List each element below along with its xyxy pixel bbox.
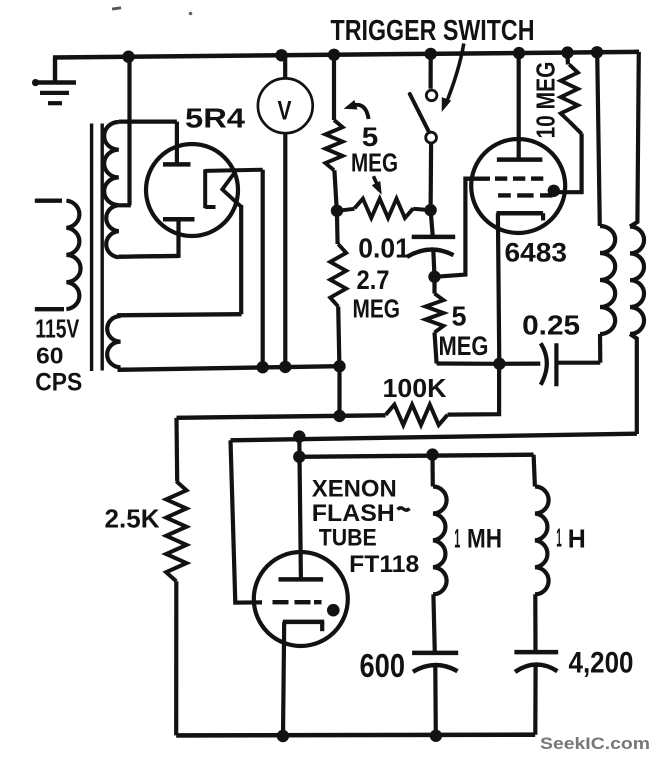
pot adjust curved arrow	[349, 105, 369, 119]
6483 grid (dashed)	[465, 177, 490, 181]
6483 gas dot	[548, 185, 560, 197]
inductor 1H	[534, 455, 535, 487]
potentiometer 5 MEG vertical element	[332, 55, 336, 120]
wire node to cap 0.01	[431, 210, 433, 237]
wire switch to resistor node	[429, 144, 434, 211]
5R4 filament	[203, 169, 207, 208]
wire to 6483 grid	[435, 179, 489, 277]
xenon cathode	[283, 620, 324, 625]
svg-text:2.5K: 2.5K	[105, 504, 160, 534]
resistor 10 MEG	[565, 53, 570, 65]
node: bus junction dots	[122, 51, 134, 63]
svg-text:FT118: FT118	[349, 551, 419, 578]
ground	[53, 58, 57, 83]
node junction	[493, 358, 505, 370]
node junction	[424, 204, 436, 216]
svg-text:MEG: MEG	[439, 331, 489, 361]
xenon anode bar	[279, 577, 324, 582]
wire filament bus	[118, 366, 340, 370]
speck	[189, 12, 193, 16]
node: center tap	[119, 203, 131, 207]
xenon gas dot	[327, 604, 340, 617]
svg-text:2.7: 2.7	[357, 265, 390, 295]
svg-text:6483: 6483	[505, 238, 568, 268]
transformer T1 core	[90, 124, 93, 372]
tube xenon flashtube FT118 envelope	[254, 552, 348, 646]
resistor 100K	[386, 405, 448, 425]
svg-text:1: 1	[556, 523, 562, 553]
wire top supply bus	[53, 52, 639, 58]
node junction below 0.01	[428, 271, 440, 283]
svg-text:600: 600	[360, 647, 406, 684]
node junction	[331, 205, 343, 217]
wire anode bus	[299, 455, 533, 457]
5R4 top plate	[163, 162, 191, 167]
wire xenon cathode lead	[283, 622, 284, 736]
wire xenon anode lead	[299, 437, 301, 580]
svg-text:MH: MH	[467, 524, 502, 554]
transformer T1 secondary winding (upper half)	[119, 119, 177, 123]
trigger switch wire from bus	[429, 54, 433, 89]
svg-text:TRIGGER SWITCH: TRIGGER SWITCH	[331, 15, 535, 47]
wire bottom bus	[176, 732, 535, 737]
resistor 2.7 MEG	[335, 211, 340, 244]
wire 5R4 filament right lead	[261, 170, 265, 368]
voltmeter V wire bottom	[283, 133, 287, 367]
wire gas dot to 10 MEG	[557, 134, 582, 193]
wire mid bus left	[337, 366, 341, 416]
svg-text:5: 5	[452, 301, 467, 332]
svg-text:115V: 115V	[35, 314, 79, 344]
svg-text:MEG: MEG	[351, 148, 398, 178]
wire 5R4 filament to winding	[239, 205, 243, 314]
resistor 2.5K	[174, 418, 179, 481]
capacitor 600	[412, 651, 458, 656]
transformer T1 secondary winding (lower half)	[106, 205, 119, 257]
svg-text:V: V	[278, 96, 292, 126]
trigger switch bottom contact	[426, 132, 437, 143]
svg-text:MEG: MEG	[353, 294, 401, 324]
resistor 5 MEG (second)	[432, 277, 436, 294]
wire trigger bus	[231, 434, 637, 441]
svg-text:100K: 100K	[383, 373, 447, 403]
wiper arrow	[373, 176, 378, 187]
5R4 bottom plate	[163, 217, 195, 222]
trigger switch top contact	[426, 90, 437, 101]
resistor 5 MEG horizontal	[337, 209, 355, 211]
svg-text:H: H	[568, 524, 586, 554]
capacitor 0.25	[499, 362, 540, 366]
svg-text:5R4: 5R4	[185, 103, 246, 134]
svg-text:10 MEG: 10 MEG	[531, 62, 561, 139]
svg-text:FLASH: FLASH	[312, 500, 395, 527]
svg-text:SeekIC.com: SeekIC.com	[540, 735, 650, 753]
inductor 1MH	[430, 455, 434, 487]
voltmeter V wire top	[283, 55, 287, 78]
svg-text:XENON: XENON	[312, 475, 397, 502]
6483 trigger grid (dashed)	[498, 193, 511, 197]
wire to cathode node	[437, 361, 500, 365]
capacitor 4,200	[514, 650, 558, 655]
svg-text:0.25: 0.25	[522, 310, 580, 341]
6483 cathode	[497, 211, 544, 216]
capacitor 0.01	[412, 235, 456, 240]
trigger switch blade	[410, 94, 429, 132]
wire 6483 cathode lead	[498, 213, 499, 364]
speck	[112, 6, 121, 10]
tube 6483 envelope	[471, 139, 565, 233]
svg-text:60: 60	[36, 343, 64, 369]
xenon trigger (dashed)	[273, 600, 289, 604]
transformer T1 filament winding	[117, 314, 242, 315]
voltmeter V	[258, 78, 313, 133]
output transformer right winding	[630, 52, 639, 227]
output transformer left winding	[597, 52, 600, 226]
svg-text:0.01: 0.01	[358, 233, 410, 264]
svg-text:1: 1	[454, 524, 460, 554]
tube 5R4 envelope	[146, 144, 238, 236]
arrow label to switch	[446, 44, 464, 105]
6483 plate	[497, 157, 543, 162]
wire trigger down lead	[231, 440, 263, 602]
svg-text:4,200: 4,200	[569, 647, 634, 680]
svg-text:TUBE: TUBE	[319, 525, 377, 552]
transformer T1 primary winding	[35, 198, 62, 202]
svg-text:CPS: CPS	[35, 369, 82, 397]
